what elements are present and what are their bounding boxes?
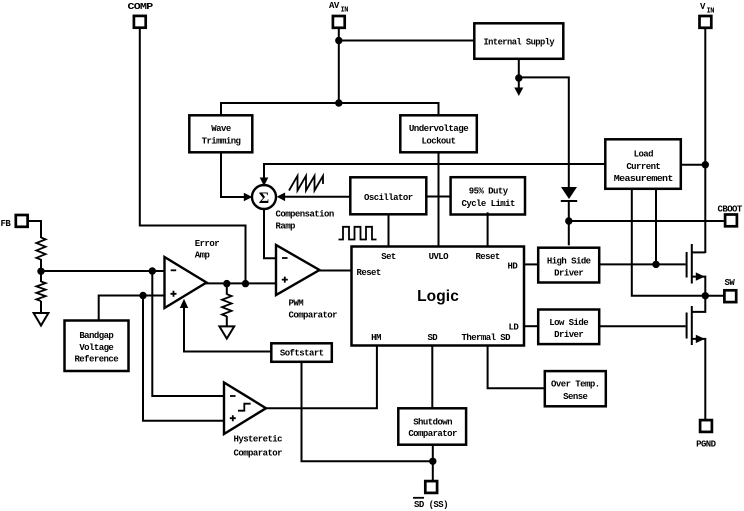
svg-text:Sense: Sense xyxy=(563,392,587,402)
svg-text:PGND: PGND xyxy=(696,440,717,450)
box U2 Wave Trimming xyxy=(189,115,252,152)
wire softstart to error amp bottom input xyxy=(184,306,270,352)
box U7 Logic xyxy=(352,247,525,346)
box U11 Over Temp. Sense xyxy=(545,371,606,406)
svg-text:COMP: COMP xyxy=(128,2,154,12)
pad SD (SS) xyxy=(413,481,448,510)
svg-text:Voltage: Voltage xyxy=(79,343,113,353)
svg-text:CBOOT: CBOOT xyxy=(718,205,743,215)
wire COMP pad down, right, down to error-amp output node xyxy=(140,28,246,284)
svg-text:IN: IN xyxy=(707,8,715,16)
svg-text:UVLO: UVLO xyxy=(429,252,450,262)
svg-text:Reference: Reference xyxy=(74,355,118,365)
wire Load Current Measurement right pin down to gate line xyxy=(655,189,657,264)
wire FB node to error amp inverting input xyxy=(41,270,165,272)
svg-text:95% Duty: 95% Duty xyxy=(469,187,509,197)
wire Load Current Measurement right edge to VIN line xyxy=(681,164,705,166)
wire Oscillator ramp output into summer right xyxy=(284,196,350,198)
svg-text:Softstart: Softstart xyxy=(280,349,324,359)
wire Logic Thermal SD down and right to Over Temp Sense xyxy=(488,346,544,389)
svg-text:AV: AV xyxy=(329,1,340,11)
resistor R2 feedback bottom xyxy=(36,282,45,302)
wire divider middle xyxy=(40,259,42,282)
svg-text:FB: FB xyxy=(1,219,12,229)
pad CBOOT xyxy=(718,205,743,227)
wire load current measurement output to compensation summer xyxy=(264,164,605,181)
wire hysteretic output to Logic HM input xyxy=(265,346,377,408)
node AVIN distribution junction xyxy=(335,99,342,106)
svg-text:SD: SD xyxy=(427,333,438,343)
arrow into summer left xyxy=(244,193,253,202)
wire FB pad to divider top xyxy=(28,221,41,238)
wire Logic SD down to shutdown comparator xyxy=(431,346,433,409)
ground error amp load xyxy=(219,326,234,338)
svg-text:Load: Load xyxy=(634,150,654,160)
svg-text:Set: Set xyxy=(381,252,396,262)
arrow internal rail down xyxy=(514,88,523,97)
wire Low Side Driver output to low-side gate xyxy=(598,325,686,327)
op-amp hysteretic comparator xyxy=(224,383,282,459)
wire internal supply to bootstrap diode anode xyxy=(519,77,569,187)
node error amp minus branch junction xyxy=(149,267,156,274)
svg-text:Logic: Logic xyxy=(417,288,459,305)
node VIN / load current measurement junction xyxy=(702,161,709,168)
svg-text:Lockout: Lockout xyxy=(422,136,456,146)
wire AVIN pad down to lower distribution node xyxy=(338,28,340,103)
wire Internal Supply output down to junction xyxy=(518,59,520,80)
node SD / softstart junction xyxy=(429,458,436,465)
svg-text:Comparator: Comparator xyxy=(408,429,457,439)
node COMP connection junction xyxy=(242,280,249,287)
svg-text:Over Temp.: Over Temp. xyxy=(551,380,600,390)
transistor Q2 low-side NMOS xyxy=(687,296,706,419)
arrow into summer top xyxy=(260,178,269,187)
pad PGND xyxy=(696,420,717,449)
svg-text:HM: HM xyxy=(371,333,381,343)
svg-text:Reset: Reset xyxy=(357,268,381,278)
label Compensation Ramp xyxy=(276,210,334,232)
wire resistor to ground xyxy=(226,316,228,327)
svg-text:SD (SS): SD (SS) xyxy=(414,500,448,510)
wire plus branch down to hysteretic comparator plus input xyxy=(143,296,224,421)
box U13 Low Side Driver xyxy=(538,310,599,345)
wire Load Current Measurement left pin down to SW node xyxy=(632,189,706,296)
wire Logic HD output to High Side Driver xyxy=(524,263,539,265)
ground feedback divider xyxy=(34,313,49,326)
arrow into summer right xyxy=(277,193,286,202)
wire bandgap reference up and right to error amp non-inverting input xyxy=(99,296,165,321)
svg-text:LD: LD xyxy=(509,323,520,333)
pad SW xyxy=(724,278,736,302)
svg-text:Error: Error xyxy=(195,239,219,249)
wire shutdown comparator to SD pad xyxy=(432,445,434,481)
wire minus branch down to hysteretic comparator minus input xyxy=(152,271,224,396)
svg-text:Measurement: Measurement xyxy=(614,174,673,184)
transistor Q1 high-side NMOS xyxy=(687,244,706,296)
wire output node down to resistor xyxy=(226,283,228,294)
wire AVIN node to Internal Supply input xyxy=(339,40,475,42)
svg-text:Comparator: Comparator xyxy=(234,449,283,459)
node internal supply output junction xyxy=(515,74,522,81)
svg-text:Driver: Driver xyxy=(554,330,583,340)
svg-text:Comparator: Comparator xyxy=(289,311,338,321)
svg-text:Reset: Reset xyxy=(475,252,499,262)
svg-text:Low Side: Low Side xyxy=(549,318,588,328)
resistor R1 feedback top xyxy=(36,238,45,260)
pad COMP xyxy=(128,2,154,28)
svg-text:Ramp: Ramp xyxy=(276,222,296,232)
node SW junction xyxy=(702,292,709,299)
svg-text:PWM: PWM xyxy=(289,299,304,309)
op-amp error amp xyxy=(165,239,220,308)
box U9 Bandgap Voltage Reference xyxy=(65,321,129,372)
svg-text:Internal Supply: Internal Supply xyxy=(483,38,555,48)
node FB divider junction xyxy=(37,268,44,275)
box U12 High Side Driver xyxy=(538,248,599,283)
wire error amp output to PWM comparator plus input xyxy=(205,282,277,284)
summing junction sigma xyxy=(252,185,276,209)
wire UVLO output down to Logic UVLO input xyxy=(438,152,440,245)
svg-text:Hysteretic: Hysteretic xyxy=(234,435,283,445)
wire diode cathode down to High Side Driver top xyxy=(568,200,570,245)
wire Wave Trimming output down and right into summer xyxy=(221,152,245,197)
wire Oscillator Set output down to Logic xyxy=(388,214,390,245)
wire Logic LD output to Low Side Driver xyxy=(524,325,538,327)
svg-text:Driver: Driver xyxy=(554,268,583,278)
wire High Side Driver output to high-side gate xyxy=(598,263,686,265)
diode D1 bootstrap xyxy=(561,187,577,201)
wire softstart bottom to shutdown line xyxy=(302,362,433,461)
wire CBOOT node to CBOOT pad xyxy=(569,220,724,222)
box U8 Softstart xyxy=(271,343,332,362)
svg-text:Shutdown: Shutdown xyxy=(413,418,452,428)
node CBOOT junction xyxy=(565,217,572,224)
box U5 95% Duty Cycle Limit xyxy=(451,177,525,214)
svg-text:Current: Current xyxy=(626,162,660,172)
wire Oscillator to 95% Duty Cycle Limit xyxy=(426,196,450,198)
icon square wave xyxy=(339,227,377,240)
wire PWM comparator output to Logic Reset input xyxy=(318,270,351,272)
node error amp plus branch junction xyxy=(139,292,146,299)
wire divider bottom to ground xyxy=(40,301,42,313)
svg-text:Amp: Amp xyxy=(195,250,210,260)
svg-text:Undervoltage: Undervoltage xyxy=(409,124,468,134)
wire internal rail stub with arrow xyxy=(518,78,520,88)
wire VIN down to high-side FET drain xyxy=(704,28,706,253)
wire summer output down to PWM comparator minus input xyxy=(264,209,277,258)
wire SW node line to pad xyxy=(705,295,723,297)
resistor R3 error amp load xyxy=(222,294,232,316)
icon sawtooth ramp waveform xyxy=(289,176,323,191)
svg-text:Cycle Limit: Cycle Limit xyxy=(462,199,516,209)
svg-text:Compensation: Compensation xyxy=(276,210,334,220)
node gate line junction xyxy=(652,261,659,268)
box U10 Shutdown Comparator xyxy=(398,408,466,444)
svg-text:Thermal SD: Thermal SD xyxy=(462,333,512,343)
node AVIN/Internal-Supply junction xyxy=(335,37,342,44)
node error amp output / resistor junction xyxy=(223,280,230,287)
pad VIN xyxy=(700,2,715,28)
svg-text:Wave: Wave xyxy=(211,124,231,134)
box U3 Undervoltage Lockout xyxy=(400,115,477,152)
svg-text:Σ: Σ xyxy=(259,190,269,207)
box U6 Load Current Measurement xyxy=(605,139,681,189)
op-amp PWM comparator xyxy=(276,245,337,321)
svg-text:High Side: High Side xyxy=(547,257,591,267)
svg-text:SW: SW xyxy=(725,278,736,288)
pad AVIN xyxy=(329,1,348,28)
wire AVIN distribution to Wave Trimming and Undervoltage Lockout xyxy=(221,103,439,115)
svg-text:Trimming: Trimming xyxy=(202,136,241,146)
svg-text:IN: IN xyxy=(341,7,349,15)
svg-text:HD: HD xyxy=(508,262,519,272)
box U4 Oscillator xyxy=(350,177,426,214)
wire 95% duty output down to Logic Reset xyxy=(487,212,489,245)
svg-text:Oscillator: Oscillator xyxy=(364,193,413,203)
arrow into error amp bottom xyxy=(180,299,188,308)
pad FB xyxy=(1,215,28,229)
svg-text:Bandgap: Bandgap xyxy=(79,331,113,341)
box U1 Internal Supply xyxy=(474,23,563,59)
